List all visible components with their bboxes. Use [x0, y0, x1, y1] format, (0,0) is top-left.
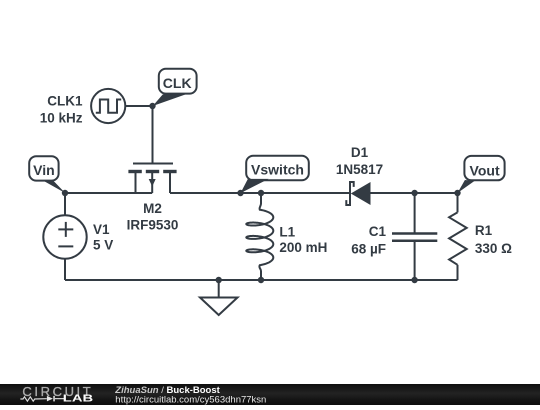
node tag CLK	[153, 69, 197, 106]
svg-text:68 µF: 68 µF	[351, 241, 386, 256]
node dot Vswitch	[237, 190, 243, 196]
node tag Vswitch	[241, 156, 309, 193]
CircuitLab logo diode	[47, 396, 53, 402]
node dot C1 bottom	[411, 277, 417, 283]
ground	[200, 280, 238, 315]
svg-text:Vin: Vin	[33, 162, 55, 178]
diode D1 (Schottky)	[346, 182, 370, 205]
node tag Vin	[29, 156, 65, 193]
svg-text:330 Ω: 330 Ω	[475, 241, 512, 256]
clock source CLK1	[91, 89, 125, 123]
svg-text:LAB: LAB	[63, 393, 93, 404]
node dot C1 top	[411, 190, 417, 196]
svg-text:V1: V1	[93, 222, 110, 237]
node dot L1 top	[258, 190, 264, 196]
wire: V1 top lead	[64, 193, 66, 215]
wire: bottom ground rail	[65, 279, 458, 281]
svg-text:L1: L1	[279, 225, 295, 240]
svg-text:200 mH: 200 mH	[279, 240, 327, 255]
svg-text:C1: C1	[369, 224, 387, 239]
transistor M2 (PMOS)	[128, 164, 176, 194]
svg-text:CLK1: CLK1	[47, 93, 83, 108]
label D1 value	[336, 145, 383, 177]
label C1 value	[351, 224, 386, 256]
footer bar	[0, 384, 540, 405]
svg-text:R1: R1	[475, 223, 493, 238]
svg-text:http://circuitlab.com/cy563dhn: http://circuitlab.com/cy563dhn77ksn	[115, 395, 266, 406]
wire: D1 anode to C1 and R1 / Vout rail	[371, 192, 458, 194]
inductor L1	[246, 193, 273, 280]
wire: CLK node down to M2 gate	[152, 106, 154, 164]
label V1 value	[93, 222, 113, 253]
wire: CLK1 to CLK node	[125, 105, 152, 107]
svg-text:D1: D1	[351, 145, 369, 160]
resistor R1	[449, 193, 467, 280]
svg-text:5 V: 5 V	[93, 237, 113, 252]
node dot Vin	[62, 190, 68, 196]
svg-text:1N5817: 1N5817	[336, 162, 383, 177]
node tag Vout	[458, 156, 505, 193]
label R1 value	[475, 223, 512, 256]
wire: Vin rail from Vin node to M2 source/body	[65, 192, 152, 194]
node dot Vout	[454, 190, 460, 196]
node dot L1 bottom	[258, 277, 264, 283]
wire: V1 bottom lead	[64, 259, 66, 280]
voltage source V1	[43, 215, 86, 258]
svg-text:Vswitch: Vswitch	[251, 162, 304, 178]
svg-text:Vout: Vout	[470, 162, 500, 178]
svg-text:CLK: CLK	[163, 75, 192, 91]
wire: M2 drain to Vswitch node and to D1 cathode	[170, 192, 350, 194]
node dot CLK junction	[149, 103, 155, 109]
capacitor C1	[392, 193, 437, 280]
svg-text:10 kHz: 10 kHz	[40, 110, 83, 125]
label CLK1 value	[40, 93, 83, 125]
CircuitLab logo resistor zigzag	[20, 397, 46, 401]
svg-text:IRF9530: IRF9530	[127, 218, 179, 233]
label L1 value	[279, 225, 327, 255]
node dot ground junction	[216, 277, 222, 283]
svg-text:M2: M2	[143, 201, 162, 216]
label M2 value	[127, 201, 179, 233]
